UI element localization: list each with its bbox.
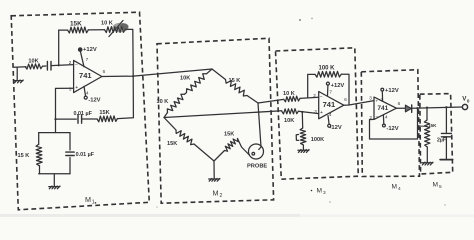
svg-text:4: 4 (329, 112, 332, 117)
svg-text:-12V: -12V (330, 125, 342, 131)
svg-text:+: + (320, 110, 323, 116)
svg-text:5: 5 (439, 184, 442, 190)
svg-text:0.01 µF: 0.01 µF (76, 152, 95, 158)
svg-text:15 K: 15 K (18, 153, 30, 159)
svg-text:3: 3 (369, 96, 372, 101)
svg-text:6: 6 (398, 101, 401, 106)
svg-text:+12V: +12V (83, 47, 97, 53)
svg-text:3: 3 (69, 87, 72, 92)
svg-text:10K: 10K (180, 76, 190, 82)
svg-text:−: − (320, 94, 323, 100)
svg-text:7: 7 (86, 57, 89, 62)
svg-text:100 K: 100 K (319, 66, 336, 72)
svg-text:−: − (75, 62, 78, 68)
svg-text:7: 7 (329, 90, 332, 95)
svg-text:−: − (375, 114, 378, 119)
svg-text:15K: 15K (167, 141, 177, 147)
svg-text:15 K: 15 K (229, 78, 241, 84)
svg-text:M: M (392, 184, 398, 191)
svg-text:10K: 10K (28, 58, 38, 64)
svg-text:+: + (75, 85, 78, 91)
svg-text:6: 6 (103, 69, 106, 74)
svg-text:M: M (317, 188, 323, 195)
svg-text:+12V: +12V (331, 83, 345, 89)
svg-text:4: 4 (398, 186, 401, 192)
svg-text:0: 0 (467, 98, 470, 103)
svg-text:M: M (433, 182, 439, 189)
svg-text:2: 2 (369, 115, 372, 120)
svg-text:1: 1 (92, 200, 95, 206)
svg-text:4: 4 (86, 91, 89, 96)
svg-text:15K: 15K (70, 21, 82, 28)
svg-text:2: 2 (313, 93, 316, 98)
svg-text:-12V: -12V (386, 126, 398, 132)
svg-text:0.01 µF: 0.01 µF (74, 111, 93, 117)
svg-text:100K: 100K (311, 137, 324, 143)
svg-text:3: 3 (314, 109, 317, 114)
svg-text:+: + (375, 99, 378, 104)
svg-text:741: 741 (377, 105, 388, 112)
svg-text:4: 4 (385, 114, 388, 119)
svg-text:741: 741 (323, 100, 336, 109)
svg-text:2: 2 (220, 193, 223, 199)
svg-text:2µF: 2µF (437, 137, 446, 143)
svg-text:3: 3 (323, 190, 326, 196)
svg-text:2: 2 (69, 60, 72, 65)
svg-text:M: M (213, 189, 219, 198)
svg-text:+12V: +12V (385, 88, 399, 94)
svg-text:741: 741 (79, 71, 92, 80)
svg-text:15K: 15K (224, 132, 234, 138)
svg-text:6: 6 (344, 97, 347, 102)
svg-text:7: 7 (381, 97, 384, 102)
svg-text:15K: 15K (428, 123, 437, 128)
svg-text:M: M (85, 195, 91, 204)
svg-text:15K: 15K (99, 110, 109, 116)
svg-text:10 K: 10 K (101, 20, 113, 26)
svg-text:-12V: -12V (88, 97, 100, 103)
svg-text:10K: 10K (284, 118, 294, 124)
svg-text:10 K: 10 K (157, 99, 169, 105)
svg-text:PROBE: PROBE (247, 164, 267, 170)
svg-text:10 K: 10 K (283, 91, 295, 97)
